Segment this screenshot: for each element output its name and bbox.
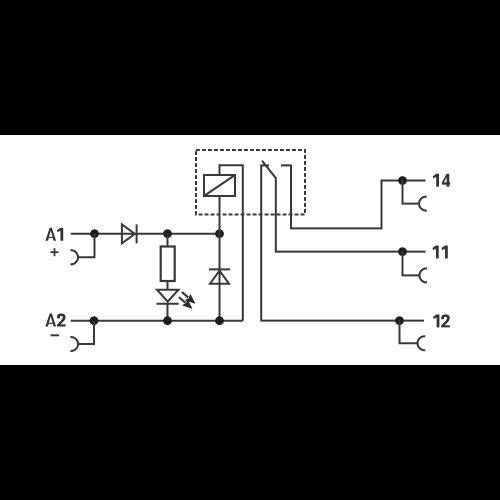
wire coil top return	[220, 165, 243, 320]
node terminal 12	[395, 316, 404, 325]
terminal clamp 12	[418, 336, 426, 350]
wire resistor to LED	[167, 281, 169, 290]
diode D1 (series)	[122, 224, 137, 243]
LED arrows	[179, 292, 195, 308]
wire A1 horizontal to node N1	[71, 233, 220, 235]
node A1 junction	[90, 229, 99, 238]
wire terminal 12 drop	[400, 321, 418, 344]
contact fixed NC (to 12)	[261, 165, 424, 320]
wire resistor branch top	[167, 234, 169, 247]
node terminal 14	[398, 176, 407, 185]
label 12	[433, 314, 450, 327]
node terminal 11	[398, 247, 407, 256]
node N1 junction (coil / diode)	[215, 229, 224, 238]
label 14	[433, 174, 450, 187]
plus sign at A1	[51, 248, 59, 256]
wire coil bottom / diode vertical	[219, 196, 221, 321]
wire terminal 14 drop	[403, 181, 420, 204]
wire terminal 11 drop	[403, 252, 420, 276]
contact fixed NO (to 14)	[281, 165, 426, 228]
node A2 junction	[90, 316, 99, 325]
node D2 bottom junction	[215, 316, 224, 325]
terminal clamp A2	[70, 337, 78, 351]
label A2	[45, 314, 65, 327]
node LED bottom junction	[163, 316, 172, 325]
diode D2 (freewheel)	[209, 269, 230, 283]
label A1	[45, 228, 63, 241]
contact blade (to 11)	[262, 161, 426, 252]
label 11	[433, 246, 448, 259]
relay dashed box K1	[196, 150, 305, 215]
wire A2 terminal drop	[78, 321, 94, 344]
LED D3	[157, 290, 179, 321]
resistor R1	[161, 247, 175, 282]
wire A2 horizontal	[71, 320, 243, 322]
wire A1 terminal drop	[78, 234, 95, 258]
node R1 top junction	[163, 229, 172, 238]
terminal clamp 14	[419, 197, 427, 211]
relay coil K1	[204, 175, 235, 196]
terminal clamp 11	[419, 268, 427, 282]
terminal clamp A1	[70, 250, 78, 264]
minus sign at A2	[51, 334, 60, 336]
